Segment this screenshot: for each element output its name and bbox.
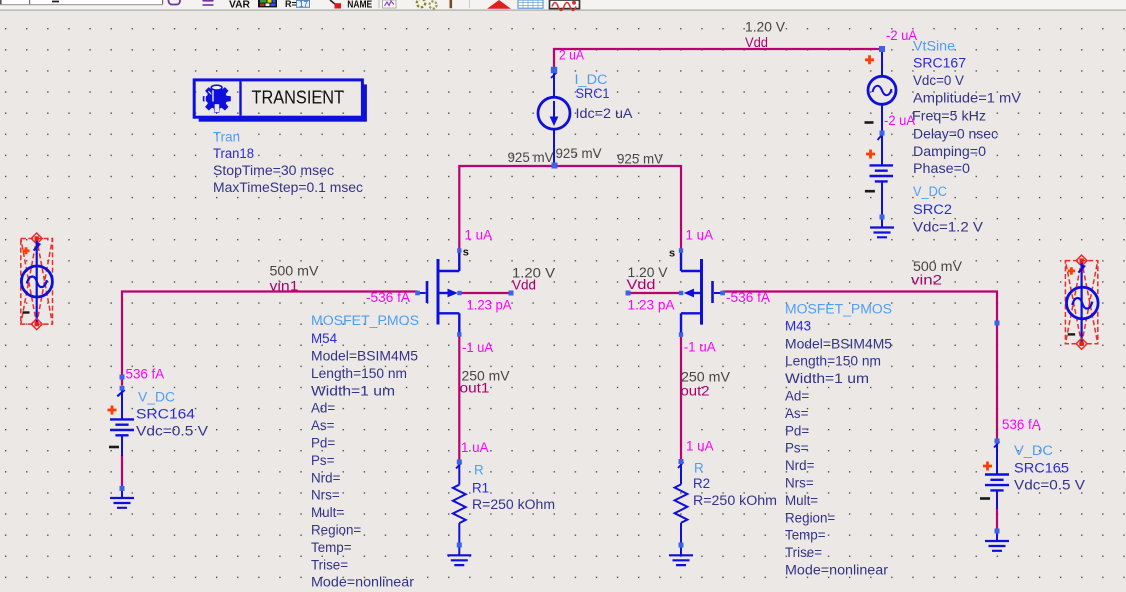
svg-text:SRC164: SRC164 xyxy=(136,407,196,422)
svg-text:1.20 V: 1.20 V xyxy=(745,20,785,35)
svg-text:1.23 pA: 1.23 pA xyxy=(467,298,512,313)
svg-text:-536 fA: -536 fA xyxy=(726,290,770,305)
svg-text:R=250 kOhm: R=250 kOhm xyxy=(693,493,777,508)
svg-text:R=: R= xyxy=(285,0,297,9)
svg-text:1 uA: 1 uA xyxy=(465,228,493,243)
svg-text:925 mV: 925 mV xyxy=(556,146,602,161)
svg-text:17: 17 xyxy=(299,0,308,9)
svg-text:Mode=nonlinear: Mode=nonlinear xyxy=(785,563,889,578)
svg-text:VAR: VAR xyxy=(229,0,251,11)
svg-text:925 mV: 925 mV xyxy=(508,150,554,165)
svg-text:s: s xyxy=(463,247,469,259)
svg-text:Temp=: Temp= xyxy=(785,528,826,543)
svg-text:Region=: Region= xyxy=(311,523,361,538)
svg-text:250 mV: 250 mV xyxy=(681,370,730,385)
svg-text:-536 fA: -536 fA xyxy=(366,290,410,305)
svg-text:SRC1: SRC1 xyxy=(576,86,610,101)
svg-text:Ad=: Ad= xyxy=(311,401,335,416)
svg-text:vin1: vin1 xyxy=(270,279,299,294)
svg-text:Mult=: Mult= xyxy=(311,505,344,520)
svg-text:1 uA: 1 uA xyxy=(686,228,714,243)
svg-text:SRC165: SRC165 xyxy=(1014,461,1069,476)
svg-text:Ps=: Ps= xyxy=(311,453,335,468)
svg-text:Width=1 um: Width=1 um xyxy=(785,371,869,386)
svg-text:-1 uA: -1 uA xyxy=(462,340,493,355)
svg-text:MOSFET_PMOS: MOSFET_PMOS xyxy=(311,313,419,328)
svg-text:Model=BSIM4M5: Model=BSIM4M5 xyxy=(311,349,418,364)
svg-text:Amplitude=1 mV: Amplitude=1 mV xyxy=(913,91,1021,106)
svg-text:Vdd: Vdd xyxy=(512,278,536,293)
svg-text:M43: M43 xyxy=(785,319,811,334)
svg-text:NAME: NAME xyxy=(347,0,372,11)
svg-text:Delay=0 nsec: Delay=0 nsec xyxy=(913,127,998,142)
svg-text:Freq=5 kHz: Freq=5 kHz xyxy=(912,109,986,124)
svg-text:StopTime=30 msec: StopTime=30 msec xyxy=(213,163,334,178)
svg-text:Damping=0: Damping=0 xyxy=(913,144,986,159)
svg-text:Region=: Region= xyxy=(785,510,835,525)
svg-text:Tran: Tran xyxy=(213,130,240,145)
svg-text:As=: As= xyxy=(785,406,809,421)
svg-text:vin2: vin2 xyxy=(911,273,942,288)
svg-text:536 fA: 536 fA xyxy=(126,367,165,382)
svg-text:Vdd: Vdd xyxy=(627,277,656,292)
svg-text:R1: R1 xyxy=(472,481,489,496)
svg-text:Temp=: Temp= xyxy=(311,540,352,555)
svg-text:Vdc=0.5 V: Vdc=0.5 V xyxy=(136,424,208,439)
svg-text:R2: R2 xyxy=(693,476,710,491)
svg-text:SRC167: SRC167 xyxy=(913,56,966,71)
svg-text:Vdc=0 V: Vdc=0 V xyxy=(913,73,964,88)
svg-text:Vdd: Vdd xyxy=(745,35,768,50)
svg-text:SRC2: SRC2 xyxy=(913,202,952,217)
svg-text:Width=1 um: Width=1 um xyxy=(311,383,395,398)
svg-text:R=250 kOhm: R=250 kOhm xyxy=(472,497,555,512)
svg-text:Mode=nonlinear: Mode=nonlinear xyxy=(311,575,415,590)
svg-text:Length=150 nm: Length=150 nm xyxy=(311,366,407,381)
svg-text:TRANSIENT: TRANSIENT xyxy=(252,86,345,107)
svg-text:Vdc=0.5 V: Vdc=0.5 V xyxy=(1014,478,1085,493)
svg-text:As=: As= xyxy=(311,418,335,433)
svg-text:Ps=: Ps= xyxy=(785,441,809,456)
svg-text:VtSine: VtSine xyxy=(913,39,955,54)
svg-text:Trise=: Trise= xyxy=(785,545,822,560)
svg-text:Ad=: Ad= xyxy=(785,389,809,404)
svg-text:-2 uA: -2 uA xyxy=(884,113,915,128)
svg-text:Length=150 nm: Length=150 nm xyxy=(785,354,881,369)
svg-text:500 mV: 500 mV xyxy=(270,264,319,279)
svg-text:Nrs=: Nrs= xyxy=(311,488,340,503)
svg-text:Vdc=1.2 V: Vdc=1.2 V xyxy=(913,220,983,235)
svg-text:Trise=: Trise= xyxy=(311,557,348,572)
svg-text:925 mV: 925 mV xyxy=(617,152,663,167)
svg-text:MOSFET_PMOS: MOSFET_PMOS xyxy=(785,302,892,317)
svg-text:Phase=0: Phase=0 xyxy=(913,161,970,176)
svg-text:V_DC: V_DC xyxy=(913,184,947,199)
svg-text:V_DC: V_DC xyxy=(138,390,175,405)
svg-text:1 uA: 1 uA xyxy=(686,439,714,454)
svg-text:Mult=: Mult= xyxy=(785,493,818,508)
svg-text:V_DC: V_DC xyxy=(1014,443,1053,458)
svg-text:s: s xyxy=(669,248,675,260)
svg-text:out1: out1 xyxy=(460,381,490,396)
svg-text:M54: M54 xyxy=(311,331,338,346)
svg-text:MaxTimeStep=0.1 msec: MaxTimeStep=0.1 msec xyxy=(213,180,363,195)
svg-text:1 uA: 1 uA xyxy=(461,440,489,455)
svg-text:Pd=: Pd= xyxy=(311,436,335,451)
svg-text:I_DC: I_DC xyxy=(575,72,608,87)
svg-text:R: R xyxy=(474,463,484,478)
svg-text:2 uA: 2 uA xyxy=(559,48,584,63)
svg-text:-1 uA: -1 uA xyxy=(684,340,716,355)
svg-text:Model=BSIM4M5: Model=BSIM4M5 xyxy=(785,336,892,351)
svg-text:Tran18: Tran18 xyxy=(213,146,254,161)
svg-text:1.23 pA: 1.23 pA xyxy=(628,298,675,313)
svg-text:Idc=2 uA: Idc=2 uA xyxy=(576,106,633,121)
svg-text:Nrd=: Nrd= xyxy=(785,458,815,473)
svg-text:Pd=: Pd= xyxy=(785,423,809,438)
svg-text:Nrd=: Nrd= xyxy=(311,470,341,485)
svg-text:Nrs=: Nrs= xyxy=(785,476,814,491)
svg-text:R: R xyxy=(694,461,704,476)
svg-text:536 fA: 536 fA xyxy=(1002,417,1041,432)
svg-text:out2: out2 xyxy=(681,384,710,399)
